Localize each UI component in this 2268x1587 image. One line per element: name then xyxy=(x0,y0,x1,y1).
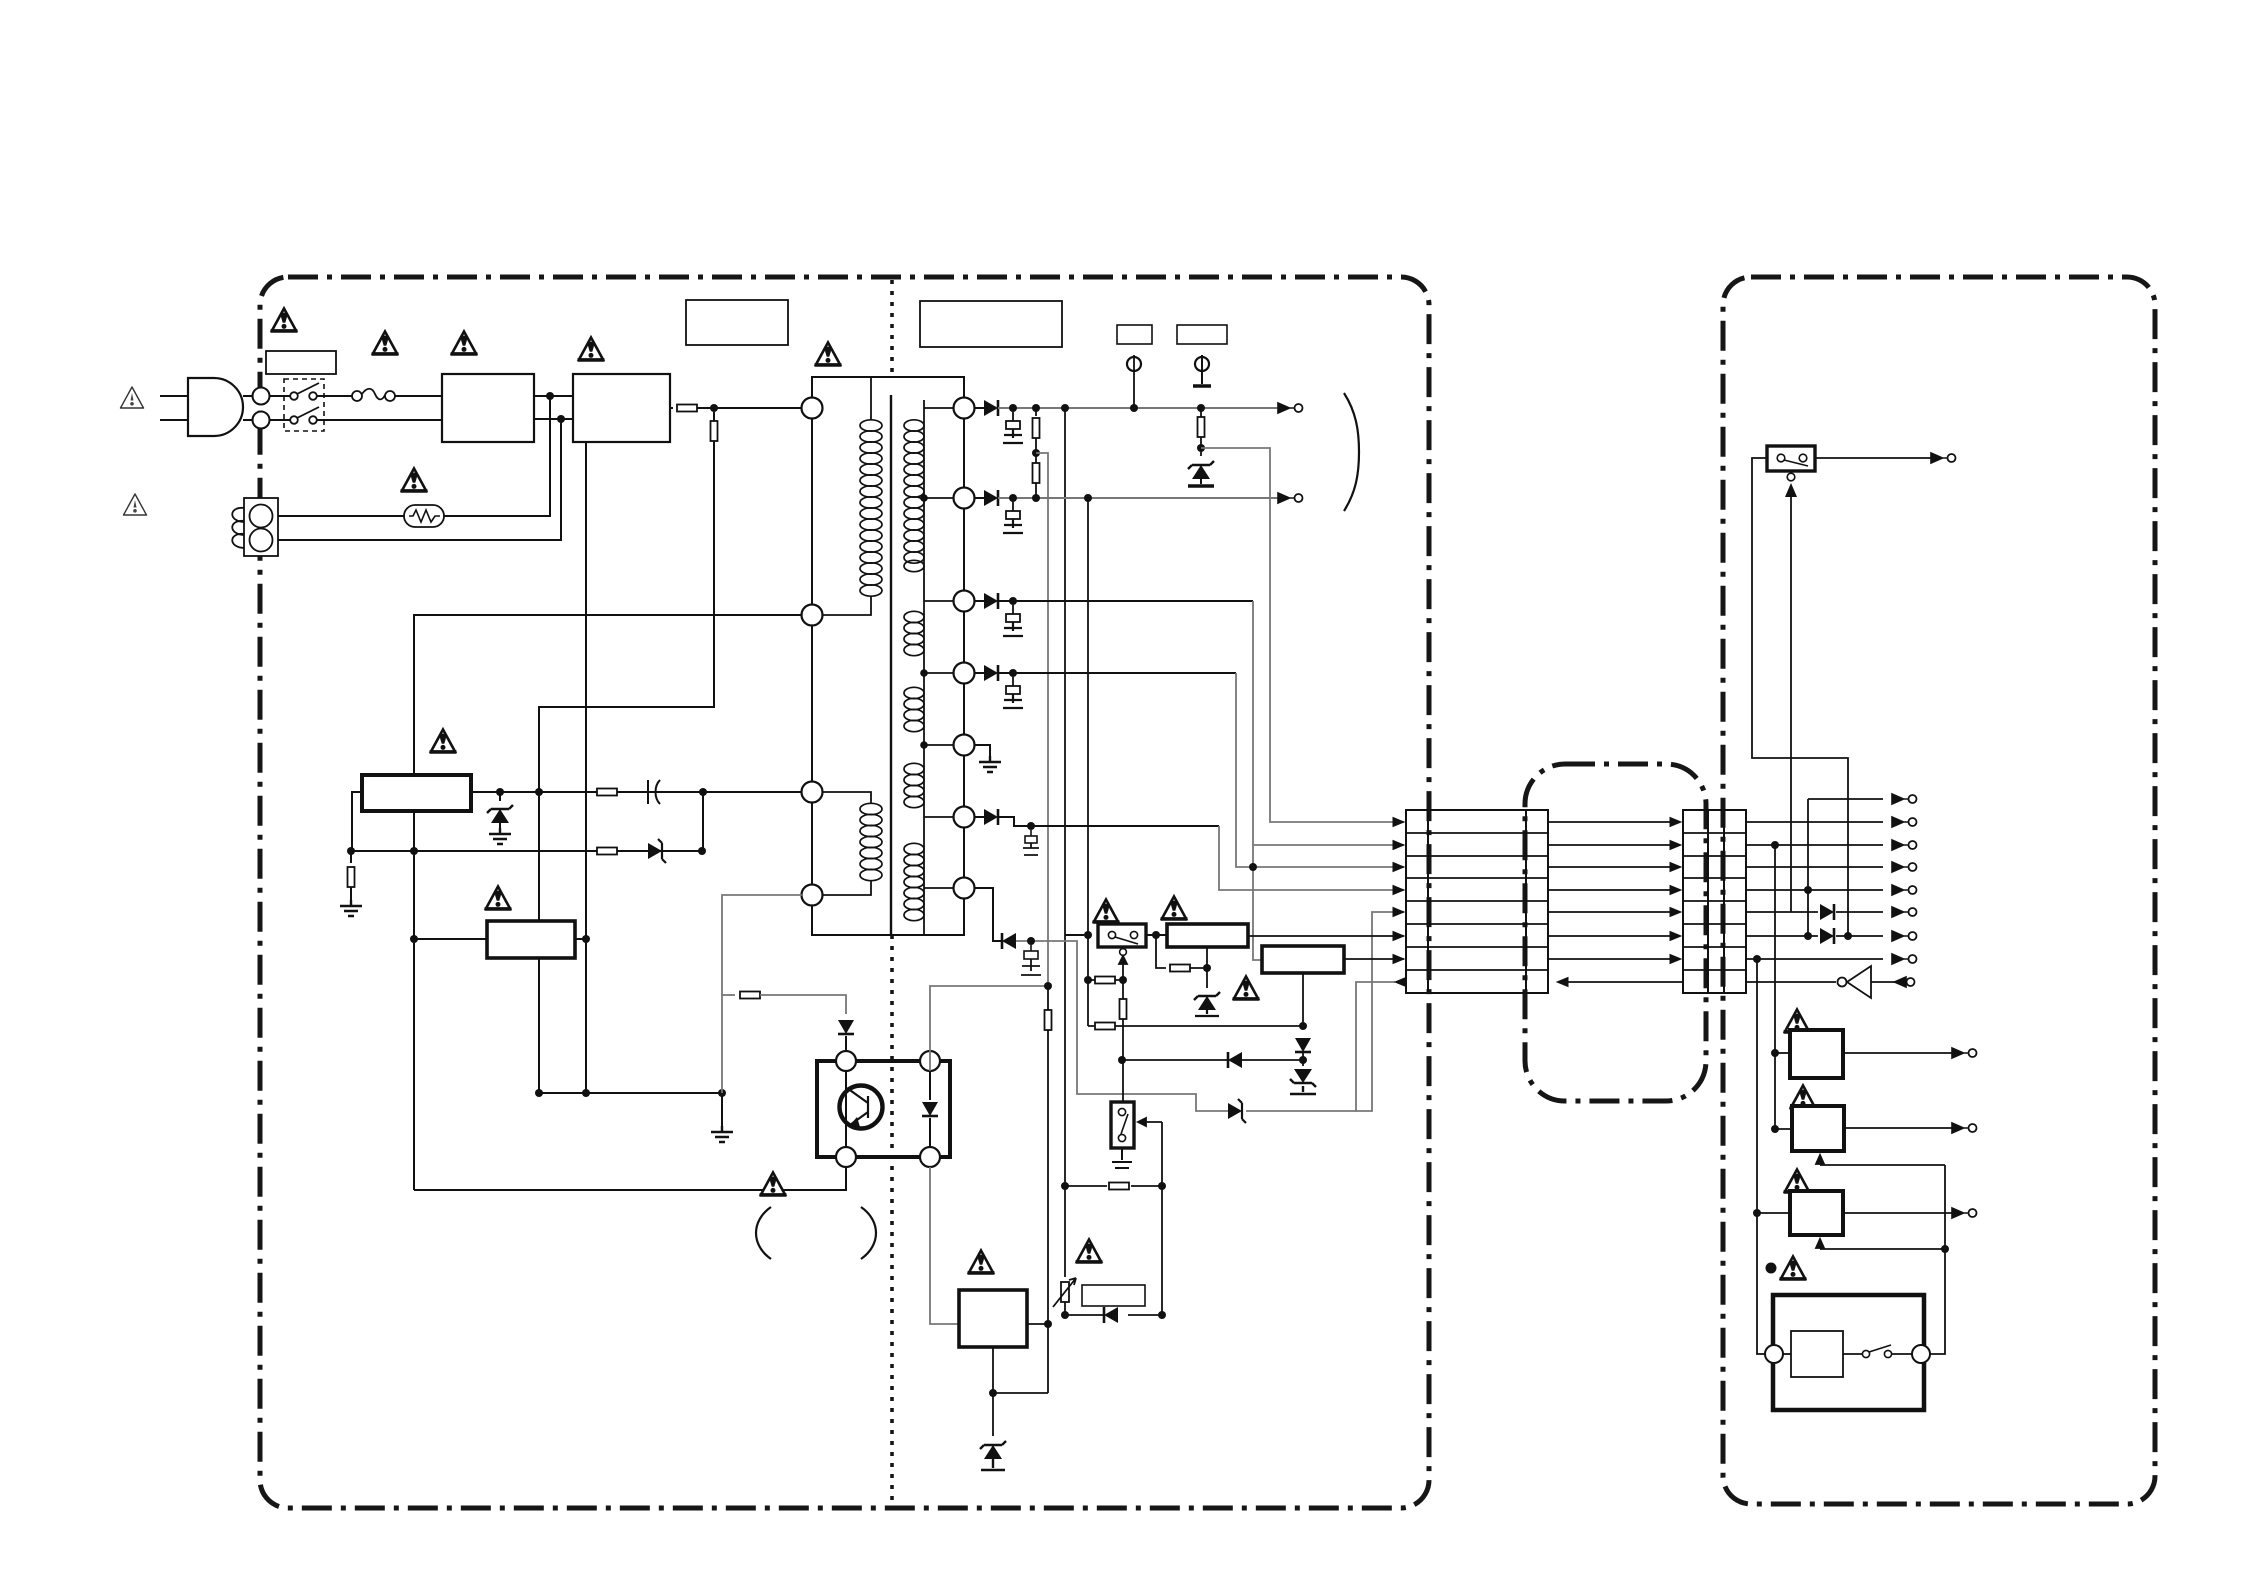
rectifier diode row S1 xyxy=(984,400,998,416)
regulator feed vertical from row2 xyxy=(1774,845,1776,1129)
wire switch lower to line filter xyxy=(317,419,442,421)
oscillator box (bold) xyxy=(1773,1295,1924,1410)
node S6 cap xyxy=(1027,822,1035,830)
control box B (bold) xyxy=(1262,946,1344,973)
wire row S3 xyxy=(975,600,1253,602)
regulator A output xyxy=(1843,1052,1957,1054)
wire box A bottom branch xyxy=(1156,935,1166,968)
node sense right xyxy=(698,847,706,855)
node S2 divider xyxy=(1032,494,1040,502)
node S1 cap xyxy=(1009,404,1017,412)
bus row2 feed wire xyxy=(1253,844,1404,846)
node 539/1093 xyxy=(535,1089,543,1097)
caution triangle (light) at mains xyxy=(121,387,144,408)
wire rectifier bottom down xyxy=(585,442,587,1093)
AC plug P1 xyxy=(188,378,243,436)
ground at sense divider xyxy=(340,900,362,916)
enable bus vertical xyxy=(1929,1165,1945,1354)
opto pin top-left xyxy=(836,1051,856,1071)
caution triangle top row 3 xyxy=(451,332,478,355)
node relay drive mid xyxy=(1118,1056,1126,1064)
inlet terminal circle lower xyxy=(253,412,270,429)
resistor on rail 1048 xyxy=(1045,1010,1052,1030)
wire pin2 feedback to left vertical xyxy=(414,615,801,1190)
black dot marker xyxy=(1766,1263,1777,1274)
secondary pin S1 xyxy=(954,398,975,419)
control IC box (bold) xyxy=(362,775,471,811)
resistor in sense row xyxy=(597,848,617,855)
node switch left xyxy=(1084,931,1092,939)
wire relay control vertical xyxy=(1161,1122,1163,1315)
filter cap row S1 xyxy=(1003,412,1023,443)
wire degauss lower to node xyxy=(278,419,561,540)
opto phototransistor xyxy=(840,1086,883,1129)
oscillator left pin xyxy=(1765,1345,1783,1363)
wire opto diode cathode down to error amp xyxy=(930,1167,959,1324)
capacitor in Vcc row xyxy=(648,780,660,804)
caution triangle above varistor xyxy=(1076,1240,1103,1263)
transformer core line xyxy=(890,395,892,935)
harness wires CN1 to CN2 xyxy=(1548,822,1683,982)
wire rail A to switch xyxy=(1065,934,1084,936)
wire S7 to aux diode row xyxy=(975,888,1002,941)
long vertical rail B xyxy=(1087,498,1089,1026)
thermistor disc lower xyxy=(250,529,273,552)
transformer T901 top rail xyxy=(812,377,964,397)
node latch mid xyxy=(1299,1056,1307,1064)
zener to ground at sense xyxy=(1200,448,1202,456)
resistor row 1186 xyxy=(1065,1185,1162,1187)
wire pin to inner box xyxy=(1783,1353,1791,1355)
control box A (bold) xyxy=(1167,924,1248,947)
line filter block xyxy=(442,374,534,442)
primary pin 4 xyxy=(802,885,823,906)
feedback line to bus row5 xyxy=(1246,912,1404,1111)
divider resistor lower xyxy=(1033,463,1040,483)
secondary pin S3 xyxy=(954,591,975,612)
caution triangle right of box A xyxy=(1233,977,1260,1000)
node S4 cap xyxy=(1009,669,1017,677)
resistor row at 1026 xyxy=(1095,1023,1115,1030)
node opto collector feed xyxy=(1044,982,1052,990)
driver box (bold) xyxy=(487,921,575,958)
node enable bus xyxy=(1941,1245,1949,1253)
opto pin bottom-left xyxy=(836,1147,856,1167)
secondary pin S6 xyxy=(954,807,975,828)
thermistor holder box xyxy=(244,498,278,556)
divider resistor upper xyxy=(1035,408,1037,416)
wire sense node to bus row1 xyxy=(1201,448,1404,822)
wire into regulator C xyxy=(1757,1212,1790,1214)
wire switch to control box xyxy=(1146,934,1167,936)
label rect top middle (blank) xyxy=(686,300,788,345)
node primary B+ xyxy=(710,404,718,412)
regulator B output xyxy=(1844,1127,1957,1129)
output rows from CN2 xyxy=(1746,822,1883,982)
oscillator right pin xyxy=(1912,1345,1930,1363)
sense resistor vertical xyxy=(1200,408,1202,417)
error amp box (bold) xyxy=(959,1290,1027,1347)
zener to ground in latch xyxy=(1302,1060,1304,1066)
label rect above test point 1 xyxy=(1117,325,1152,344)
wire box B to connector row7 xyxy=(1344,958,1404,960)
optocoupler box (bold) xyxy=(817,1061,950,1157)
wire node to driver box xyxy=(414,938,487,940)
caution triangle near oscillator xyxy=(1780,1257,1807,1280)
opto pin top-right xyxy=(920,1051,940,1071)
wire degauss upper to thermistor R901 xyxy=(278,515,404,517)
node S3 cap xyxy=(1009,597,1017,605)
switch box SW (bold) xyxy=(1098,924,1146,947)
caution triangle above driver box xyxy=(485,887,512,910)
diode left in latch row xyxy=(1122,1059,1303,1061)
oscillator inner box xyxy=(1791,1331,1843,1377)
oscillator switch xyxy=(1843,1353,1912,1355)
node 586/1093 xyxy=(582,1089,590,1097)
zener to ground at IC xyxy=(499,792,501,801)
node rail A 1186 xyxy=(1061,1182,1069,1190)
node sense row left xyxy=(347,847,355,855)
resistor to ground below node xyxy=(350,851,352,863)
filter cap row S3 xyxy=(1003,605,1023,636)
switch feed wire from row6 xyxy=(1752,458,1848,936)
switch S1a xyxy=(290,392,298,400)
rectifier block xyxy=(573,374,670,442)
node 1162/1186 xyxy=(1158,1182,1166,1190)
diode in bottom rail xyxy=(1104,1307,1118,1323)
caution triangle top row 4 xyxy=(578,338,605,361)
caution triangle top row 1 xyxy=(271,309,298,332)
diode into optocoupler LED xyxy=(838,1020,854,1034)
long vertical rail A xyxy=(1064,408,1066,1277)
arrow up into switch xyxy=(1790,496,1792,912)
test point TP1 xyxy=(1127,357,1141,371)
caution triangle above regulator A xyxy=(1784,1010,1811,1033)
label rect top secondary (blank) xyxy=(920,301,1062,347)
wire snubber down and across xyxy=(539,441,714,1093)
rectifier diode row S6 xyxy=(984,809,998,825)
isolation boundary dotted line lower xyxy=(890,935,894,1506)
node aux cap xyxy=(1027,937,1035,945)
wire switch to fuse xyxy=(317,395,352,397)
bottom rail of standby circuit xyxy=(1065,1314,1162,1316)
resistor divider row at 980 xyxy=(1095,977,1115,984)
wire into regulator A xyxy=(1775,1052,1790,1054)
node zener tap xyxy=(496,788,504,796)
node at 586/939 xyxy=(582,935,590,943)
wire ref node to rail 1048 xyxy=(993,1392,1048,1394)
aux winding bottom stub xyxy=(823,880,871,895)
zener in feedback line xyxy=(1228,1099,1246,1123)
node sense at 414 xyxy=(410,847,418,855)
diode down in latch xyxy=(1295,1038,1311,1052)
primary pin bus xyxy=(811,408,813,895)
wire rectifier to R startup xyxy=(670,407,673,409)
node on lower wire xyxy=(557,415,565,423)
node S1 sense resistor xyxy=(1197,404,1205,412)
aux branch to opto diode xyxy=(722,994,735,996)
regulator B enable arrow xyxy=(1816,1155,1945,1165)
output terminal row S1 xyxy=(1278,403,1303,413)
node on upper wire xyxy=(546,392,554,400)
wire aux row to feedback vertical xyxy=(1016,941,1228,1111)
primary winding coil xyxy=(870,377,872,420)
caution triangle above control IC xyxy=(430,730,457,753)
regulator A box (bold) xyxy=(1790,1030,1843,1078)
cap on aux row xyxy=(1030,945,1032,951)
wire S4 down to connector row3 xyxy=(1236,673,1404,867)
filter cap row S4 xyxy=(1003,677,1023,708)
parenthesis left xyxy=(756,1207,771,1259)
diode aux row xyxy=(1002,933,1016,949)
node sense/zener xyxy=(1197,444,1205,452)
caution triangle above error amp xyxy=(968,1251,995,1274)
wire S3 down to connector row2 xyxy=(1253,601,1262,960)
thermistor disc upper xyxy=(250,505,273,528)
resistor startup horizontal xyxy=(677,405,697,412)
node error amp ref xyxy=(989,1389,997,1397)
wire row S6 xyxy=(975,817,1219,826)
switch bottom contact xyxy=(1120,949,1127,956)
regulator C enable arrow xyxy=(1816,1239,1945,1249)
standby feed vertical from row7 xyxy=(1757,959,1766,1354)
rectifier diode row S2 xyxy=(984,490,998,506)
node 1088/980 xyxy=(1084,976,1092,984)
wire error amp bottom xyxy=(992,1347,994,1393)
label rect above test point 2 xyxy=(1177,325,1227,344)
resistor in Vcc row xyxy=(597,789,617,796)
secondary winding spine xyxy=(923,400,925,935)
bus row8 return wire xyxy=(1356,982,1395,1111)
primary ground bus horizontal xyxy=(539,1092,722,1094)
arrows into CN1 xyxy=(1393,818,1406,987)
switch output wire xyxy=(1815,457,1936,459)
node bottom rail right xyxy=(1158,1311,1166,1319)
wire box B bottom to latch xyxy=(1302,973,1304,1026)
primary pin 2 xyxy=(802,605,823,626)
wire thermistor to node xyxy=(444,396,550,516)
isolation boundary dotted line upper xyxy=(890,280,894,377)
wire box A to connector row6 xyxy=(1248,935,1404,937)
secondary pin S4 xyxy=(954,663,975,684)
node latch top xyxy=(1299,1022,1307,1030)
node switch right xyxy=(1152,931,1160,939)
label rect near varistor (blank) xyxy=(1082,1285,1145,1306)
regulator C box (bold) xyxy=(1790,1191,1843,1235)
fuse F1 xyxy=(352,391,362,401)
harness arrowheads xyxy=(1557,818,1681,987)
wire opto collector up to divider xyxy=(930,986,1048,1071)
switch common contact xyxy=(1787,473,1795,481)
output terminals right side xyxy=(1892,794,1917,804)
switch S1b xyxy=(290,416,298,424)
wire plug to inlet terminals xyxy=(243,396,253,420)
resistor snubber vertical xyxy=(713,412,715,421)
node reg A input xyxy=(1771,1049,1779,1057)
tap vertical 1808 xyxy=(1807,799,1809,936)
primary pin 1 xyxy=(802,398,823,419)
connector CN2 body xyxy=(1683,810,1746,993)
wire row S2 to output xyxy=(975,497,984,499)
divider mid node xyxy=(1032,449,1040,457)
wire opto emitter row xyxy=(414,1167,846,1190)
node reg B input xyxy=(1771,1125,1779,1133)
diode output row5 xyxy=(1820,904,1834,920)
interlock dashed box xyxy=(284,379,324,431)
wire fuse to line filter xyxy=(395,395,442,397)
inverter gate xyxy=(1847,966,1871,998)
transformer bottom rail xyxy=(812,899,964,935)
wire filter to rectifier upper xyxy=(534,395,573,397)
node at 414/939 xyxy=(410,935,418,943)
caution triangle on transformer rail xyxy=(815,343,842,366)
secondary winding S5 coil xyxy=(904,843,924,920)
parenthesis right xyxy=(861,1207,876,1259)
output terminal row S2 xyxy=(1278,493,1303,503)
relay switch top right box xyxy=(1767,446,1815,471)
degauss coil L1 xyxy=(232,508,245,548)
relay ground xyxy=(1112,1148,1132,1168)
node vcc/545 xyxy=(535,788,543,796)
node 722/1093 xyxy=(718,1089,726,1097)
zener ref to ground xyxy=(992,1393,994,1436)
node 1123/980 xyxy=(1119,976,1127,984)
wire inlet to switch xyxy=(269,396,290,420)
inverter input terminal xyxy=(1895,977,1915,987)
aux supply wire pin4 to opto branch xyxy=(722,895,802,1093)
variable resistor in rail A xyxy=(1061,1282,1069,1302)
wire into regulator B xyxy=(1775,1128,1792,1130)
node S1 divider xyxy=(1032,404,1040,412)
plug prong wires xyxy=(160,396,188,420)
node 1048/1324 xyxy=(1044,1320,1052,1328)
wire filter to rectifier lower xyxy=(534,418,573,420)
wire IC Vcc row xyxy=(471,791,801,793)
test point TP2 xyxy=(1195,357,1209,371)
regulator B box (bold) xyxy=(1792,1106,1844,1151)
tap junction dots xyxy=(920,494,928,502)
secondary pin bus xyxy=(963,408,965,888)
filter cap row S6 xyxy=(1030,830,1032,836)
rectifier diode row S3 xyxy=(984,593,998,609)
main power block border (left dash-dot box) xyxy=(260,277,1429,1508)
secondary winding S4 coil xyxy=(904,763,924,807)
secondary pin S2 xyxy=(954,488,975,509)
label box (blank) xyxy=(266,351,336,374)
regulator C output xyxy=(1843,1212,1957,1214)
caution triangle top row 2 xyxy=(372,332,399,355)
secondary winding S2 coil xyxy=(904,611,924,655)
relay box (bold vertical) xyxy=(1111,1102,1134,1148)
secondary block border (middle dash-dot box) xyxy=(1525,764,1706,1101)
connector CN1 body xyxy=(1406,810,1548,993)
inlet terminal circle upper xyxy=(253,388,270,405)
wire row S4 xyxy=(975,672,1236,674)
secondary pin S5 xyxy=(954,735,975,756)
filter cap row S2 xyxy=(1003,502,1023,533)
wire row S1 to output xyxy=(975,407,984,409)
caution triangle above regulator C xyxy=(1784,1170,1811,1193)
node before pin3 xyxy=(699,788,707,796)
output block border (right dash-dot box) xyxy=(1723,277,2155,1504)
zener to ground below node xyxy=(1206,968,1208,988)
node box A bias xyxy=(1203,964,1211,972)
node S2 vertical xyxy=(1084,494,1092,502)
wire divider tap to long vertical xyxy=(1036,453,1048,986)
secondary taps to pins xyxy=(924,408,953,888)
wire IC left down to sense row xyxy=(352,792,362,851)
caution triangle (light) at degauss xyxy=(124,494,147,515)
top tapped output row xyxy=(1808,798,1883,800)
secondary winding S3 coil xyxy=(904,687,924,731)
secondary winding S1 coil xyxy=(904,420,924,572)
caution triangle above thermistor xyxy=(401,469,428,492)
primary ground symbol xyxy=(721,1093,723,1128)
stub node to box A bottom xyxy=(1206,947,1208,968)
resistor on relay drive vertical xyxy=(1120,999,1127,1019)
node S2 cap xyxy=(1009,494,1017,502)
node bottom rail left xyxy=(1061,1311,1069,1319)
thermistor R901 in oval xyxy=(404,505,444,527)
node row2/row3 cross xyxy=(1249,863,1257,871)
primary pin 3 xyxy=(802,782,823,803)
primary winding bottom stub xyxy=(823,596,871,615)
zener in sense row xyxy=(648,839,666,863)
arrow into relay xyxy=(1138,1118,1162,1126)
wire resistor to primary node xyxy=(697,407,801,409)
sense row wire xyxy=(351,792,703,851)
opto pin bottom-right xyxy=(920,1147,940,1167)
caution triangle above ps-on box xyxy=(1161,897,1188,920)
wire S5 to ground xyxy=(975,745,990,758)
output group bracket xyxy=(1344,393,1359,511)
wire S6 down to connector row4 xyxy=(1219,826,1404,890)
secondary pin S7 xyxy=(954,878,975,899)
rectifier diode row S4 xyxy=(984,665,998,681)
caution triangle above relay switch xyxy=(1093,900,1120,923)
node S1 long vertical xyxy=(1061,404,1069,412)
caution triangle above regulator B xyxy=(1790,1086,1817,1109)
diode output row6 xyxy=(1820,928,1834,944)
opto led diode xyxy=(929,1071,931,1100)
caution triangle below optocoupler xyxy=(760,1173,787,1196)
wire error amp right to rail 1048 xyxy=(1027,1323,1048,1325)
wire driver box to rectifier-bottom vertical xyxy=(575,938,586,940)
aux winding coil xyxy=(823,792,871,804)
node row6 right xyxy=(1844,932,1852,940)
switch output terminal xyxy=(1931,453,1956,463)
